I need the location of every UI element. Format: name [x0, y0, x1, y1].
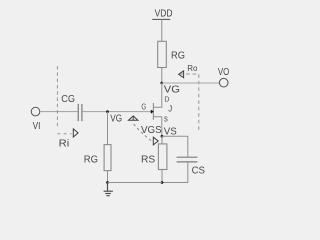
node ground junction	[106, 181, 109, 184]
wire VG node to VO terminal	[162, 82, 220, 84]
wire VI to CG	[40, 111, 78, 113]
wire gate node down to RG	[107, 112, 109, 145]
svg-text:s: s	[164, 114, 168, 124]
svg-text:CS: CS	[192, 166, 206, 177]
transistor J: drain lead	[153, 83, 161, 107]
svg-text:CG: CG	[61, 94, 75, 105]
resistor RG (gate)	[104, 145, 111, 171]
wire RG bottom to node VG	[161, 68, 163, 84]
transistor J: source lead	[153, 117, 161, 137]
arrow VGS (open, pointing right)	[153, 137, 158, 145]
dashed line Ro	[180, 74, 199, 131]
resistor RG (drain)	[158, 41, 167, 67]
svg-text:VG: VG	[164, 85, 180, 96]
dashed line Ri (vertical)	[56, 66, 58, 129]
node RS bottom	[161, 181, 164, 184]
svg-text:RG: RG	[84, 155, 98, 166]
terminal VO	[219, 78, 228, 87]
wire bottom rail	[108, 182, 163, 184]
svg-text:Ri: Ri	[59, 138, 70, 149]
svg-text:J: J	[168, 105, 172, 114]
svg-text:VDD: VDD	[155, 8, 173, 19]
svg-text:VO: VO	[218, 67, 230, 78]
svg-text:D: D	[164, 97, 169, 104]
svg-text:Ro: Ro	[187, 63, 198, 73]
wire VS to CS	[162, 136, 188, 157]
transistor J: gate arrow	[151, 110, 153, 113]
arrow Ri (open, pointing right)	[73, 129, 78, 137]
arrow VGS top (open, pointing up)	[129, 116, 138, 120]
wire RG bottom to ground	[107, 171, 109, 183]
svg-text:VI: VI	[33, 121, 41, 132]
wire CS bottom	[162, 162, 188, 182]
ground	[104, 183, 113, 196]
wire CG to gate	[83, 111, 152, 113]
VDD power bar	[152, 18, 170, 20]
transistor J (JFET): channel bar	[152, 103, 154, 120]
svg-text:VGS: VGS	[141, 125, 162, 136]
wire RS bottom	[161, 170, 163, 183]
capacitor CS	[177, 156, 198, 158]
resistor RS	[158, 144, 167, 170]
node VG (gate node)	[106, 110, 109, 113]
dashed arc VGS	[134, 124, 152, 141]
dashed line Ri (horizontal)	[57, 133, 71, 135]
arrow Ro (open, pointing left)	[179, 71, 184, 78]
svg-text:RS: RS	[141, 154, 156, 165]
terminal VI	[31, 107, 40, 116]
svg-text:RG: RG	[171, 50, 185, 61]
wire VDD to RG top	[161, 20, 163, 42]
node VS	[161, 135, 164, 138]
svg-text:VG: VG	[110, 113, 122, 124]
wire source to RS	[161, 136, 163, 144]
capacitor CG	[77, 104, 79, 121]
svg-text:G: G	[141, 103, 146, 112]
node VG (drain node)	[160, 82, 163, 85]
